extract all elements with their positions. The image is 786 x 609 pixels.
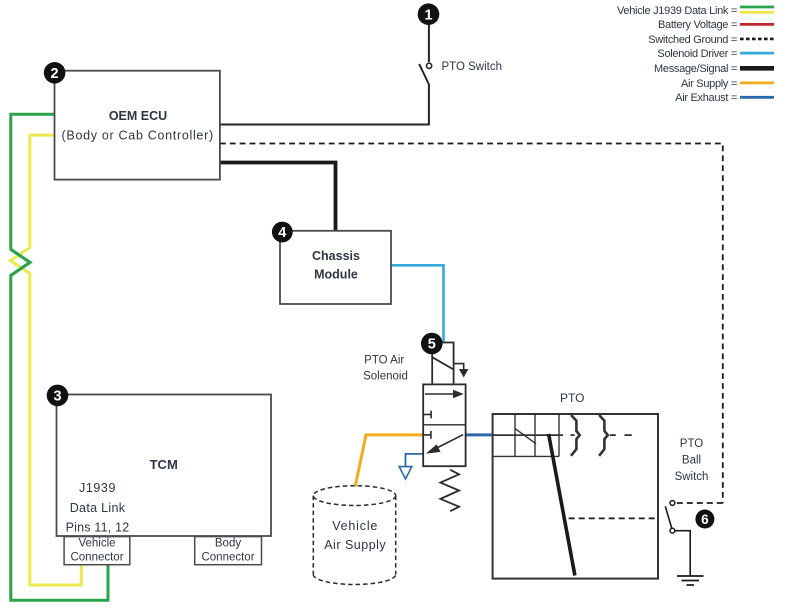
wire: shaft dash before clutch (571, 434, 575, 436)
svg-text:Vehicle J1939 Data Link =: Vehicle J1939 Data Link = (617, 5, 737, 17)
wire: J1939 yellow data link (OEM ECU to TCM vehicle connector) (11, 135, 82, 585)
svg-text:Chassis: Chassis (312, 249, 360, 263)
svg-text:Air Exhaust =: Air Exhaust = (675, 92, 737, 104)
node: callout 6 (695, 510, 714, 529)
component: valve port T-stub (top cell) (423, 411, 431, 419)
wire: air line inside PTO (493, 434, 563, 436)
svg-text:Vehicle: Vehicle (332, 519, 378, 533)
svg-text:Connector: Connector (201, 552, 254, 564)
svg-text:PTO Air: PTO Air (364, 355, 404, 367)
svg-text:Body: Body (215, 538, 241, 550)
component: exhaust triangle symbol (399, 467, 412, 479)
svg-text:Solenoid: Solenoid (363, 371, 408, 383)
legend: Message/Signal (654, 63, 774, 75)
component: valve port T-stub (bottom cell) (423, 431, 431, 439)
legend: Vehicle J1939 Data Link (617, 5, 774, 17)
svg-text:1: 1 (424, 7, 432, 23)
component: valve exhaust diagonal arrow (bottom cell) (427, 435, 463, 453)
wire: switched ground dashed (OEM ECU to PTO ball switch) (220, 144, 723, 504)
svg-text:Air Supply: Air Supply (324, 538, 386, 552)
svg-text:4: 4 (278, 225, 286, 241)
node: callout 2 (44, 62, 66, 84)
node: callout 4 (272, 222, 293, 243)
component: chassis module box (280, 231, 391, 304)
legend: Solenoid Driver (657, 48, 774, 60)
svg-text:Module: Module (314, 268, 358, 282)
legend: Battery Voltage (658, 19, 774, 31)
svg-text:Switched Ground =: Switched Ground = (648, 34, 737, 46)
wire: PTO switch stem from callout 1 (428, 25, 430, 62)
component: valve return spring (440, 470, 459, 511)
wire: solenoid driver light blue (chassis module to solenoid) (391, 265, 444, 342)
node: callout 1 (418, 3, 440, 25)
component: ball switch blade (665, 506, 672, 528)
component: PTO engagement lever (549, 434, 575, 576)
legend: Air Supply (681, 78, 774, 90)
component: ground symbol (677, 576, 704, 585)
component: PTO switch blade (419, 64, 429, 84)
component: clutch bracket 2 (599, 415, 608, 456)
wire: ball switch to ground (675, 531, 690, 576)
svg-text:TCM: TCM (150, 457, 178, 472)
node: callout 3 (47, 385, 69, 407)
svg-text:5: 5 (428, 337, 436, 353)
wire: air exhaust blue stub to exhaust port (406, 454, 425, 467)
svg-text:Ball: Ball (682, 455, 701, 467)
component: clutch bracket 1 (571, 415, 580, 456)
component: solenoid valve body (423, 384, 465, 466)
svg-text:PTO: PTO (560, 391, 584, 405)
svg-text:PTO Switch: PTO Switch (442, 61, 503, 73)
svg-text:Battery Voltage =: Battery Voltage = (658, 19, 737, 31)
wire: message/signal thick black (OEM ECU to chassis module) (220, 163, 336, 231)
wire: J1939 green data link (OEM ECU to TCM vehicle connector) (11, 114, 108, 600)
svg-text:OEM ECU: OEM ECU (109, 109, 167, 123)
wire: ground dashed into ball switch (677, 502, 723, 504)
wire: air line blue (solenoid valve to PTO) (466, 433, 493, 436)
wire: air supply amber (vehicle air supply to solenoid valve) (355, 435, 423, 487)
component: valve cell divider (423, 424, 465, 426)
component: vehicle connector box (64, 537, 130, 565)
svg-text:Message/Signal =: Message/Signal = (654, 63, 737, 75)
svg-text:Air Supply =: Air Supply = (681, 78, 737, 90)
component: solenoid actuator box U5 (432, 343, 453, 384)
svg-text:J1939: J1939 (79, 481, 116, 495)
component: PTO box (493, 414, 658, 579)
component: solenoid pilot exhaust arrow (454, 364, 468, 376)
component: PTO switch contact circle (427, 63, 432, 68)
component: TCM box (57, 395, 272, 537)
svg-text:Vehicle: Vehicle (78, 538, 115, 550)
node: twisted-pair crossover green overlay (11, 249, 30, 275)
wire: PTO switch to OEM ECU (battery/signal, thin black) (220, 84, 429, 125)
svg-text:2: 2 (51, 66, 59, 82)
svg-text:(Body or Cab Controller): (Body or Cab Controller) (62, 129, 214, 143)
component: PTO gear grid (493, 414, 559, 456)
legend: Air Exhaust (675, 92, 774, 104)
svg-text:Switch: Switch (675, 471, 709, 483)
svg-text:Solenoid Driver =: Solenoid Driver = (657, 48, 737, 60)
node: callout 5 (421, 333, 443, 355)
wire: lever linkage dashed to ball switch (569, 517, 658, 519)
svg-text:Data Link: Data Link (70, 501, 126, 515)
svg-text:Connector: Connector (70, 552, 123, 564)
legend: Switched Ground (648, 34, 774, 46)
svg-text:Pins 11, 12: Pins 11, 12 (66, 521, 130, 535)
component: valve flow arrow (top cell) (425, 391, 462, 398)
svg-text:6: 6 (701, 512, 709, 527)
svg-text:3: 3 (53, 389, 61, 405)
component: vehicle air supply cylinder (313, 486, 395, 585)
component: body connector box (195, 537, 262, 565)
wire: shaft dashes after clutch (610, 434, 632, 436)
svg-text:PTO: PTO (680, 438, 703, 450)
component: OEM ECU box (55, 71, 220, 180)
component: ball switch bottom contact (670, 528, 675, 533)
component: ball switch top contact (670, 501, 675, 506)
